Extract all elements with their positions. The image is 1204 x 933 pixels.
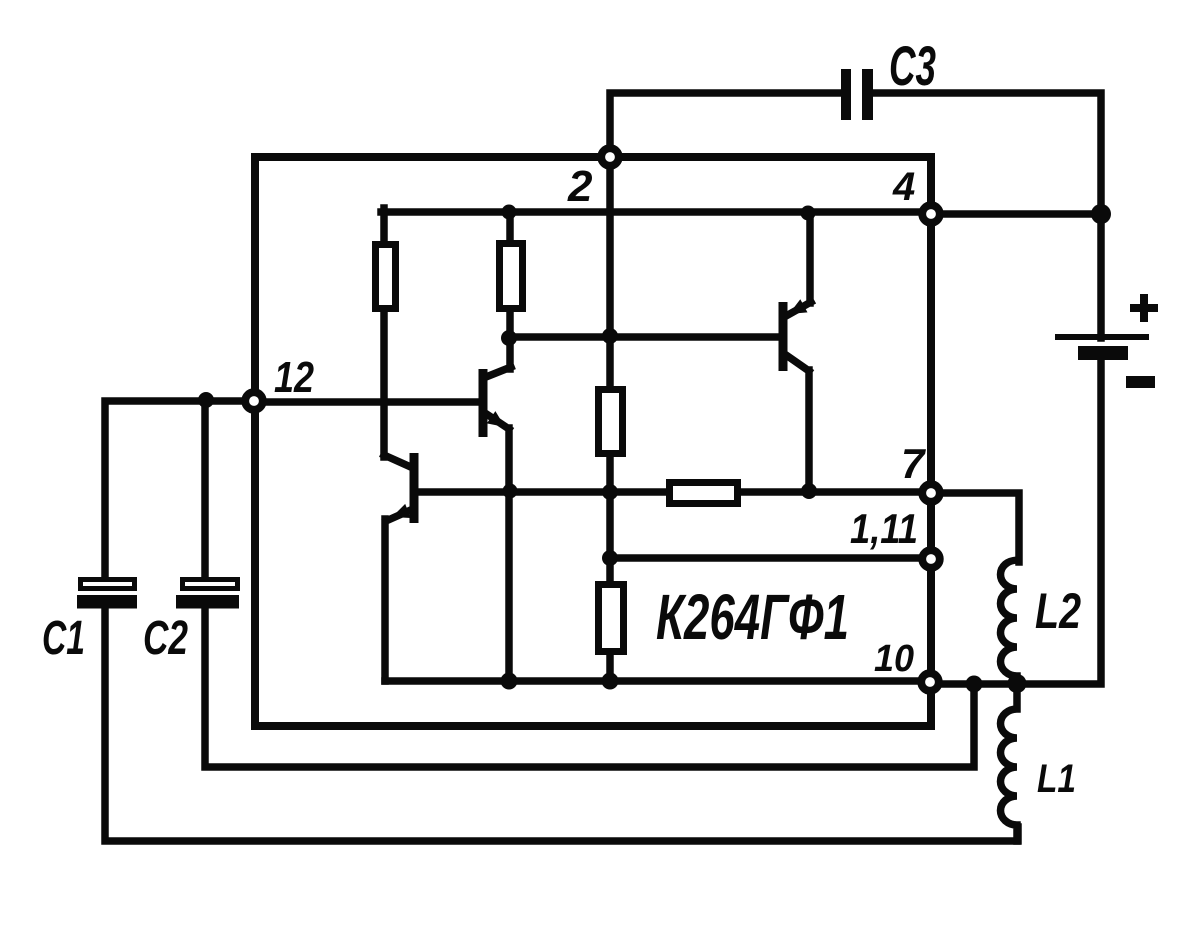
svg-text:L1: L1 xyxy=(1037,757,1076,801)
svg-text:L2: L2 xyxy=(1035,583,1081,639)
svg-text:12: 12 xyxy=(274,353,314,402)
svg-text:10: 10 xyxy=(874,638,914,680)
svg-text:C1: C1 xyxy=(42,612,85,665)
svg-text:C3: C3 xyxy=(889,34,936,97)
svg-text:2: 2 xyxy=(567,162,593,211)
svg-text:7: 7 xyxy=(901,440,926,487)
svg-text:К264ГФ1: К264ГФ1 xyxy=(656,581,849,653)
svg-text:C2: C2 xyxy=(143,612,188,665)
svg-text:4: 4 xyxy=(892,165,915,209)
svg-text:1,11: 1,11 xyxy=(850,505,918,552)
